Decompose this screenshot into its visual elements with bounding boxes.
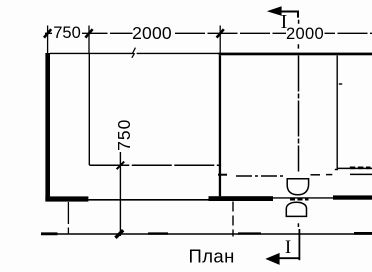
node ground line thick dash mid-left — [148, 232, 168, 234]
node door leaf upper — [287, 179, 308, 195]
wire extension line A — [47, 26, 49, 54]
node tick on partition — [117, 162, 125, 170]
wire section line lower dash — [297, 223, 299, 227]
svg-text:I: I — [285, 237, 291, 258]
node section mark top corner — [273, 12, 298, 18]
wire extension line C — [219, 26, 221, 53]
node threshold thick dashes — [290, 198, 309, 201]
wire section cut line main — [298, 56, 300, 172]
wire bottom thin wall line left room — [88, 199, 209, 201]
node text mask 2000 right — [286, 27, 325, 41]
wall bottom right thick — [333, 195, 372, 199]
wire dashed extension x68 — [67, 202, 69, 234]
node dimension tick B — [85, 29, 92, 37]
node partition foot — [335, 169, 338, 171]
node section arrow bottom — [265, 253, 279, 265]
wire dashed extension x233 — [232, 202, 234, 237]
wire corridor line right upper — [338, 167, 372, 169]
node dimension tick C — [217, 29, 224, 37]
wire vertical dim line 750 — [119, 152, 121, 236]
node text mask 2000 left — [133, 26, 175, 41]
node break mark zigzag — [132, 48, 136, 58]
node ground line thick dash left — [41, 232, 58, 235]
wall bottom-left thick — [45, 196, 88, 201]
node text mask 750 — [52, 26, 82, 39]
node ground line thick dash right — [354, 232, 372, 235]
node dimension tick A — [44, 29, 51, 37]
wire extension line B — [88, 26, 90, 55]
svg-text:2000: 2000 — [132, 23, 172, 43]
wire room inner dash before partition — [326, 174, 332, 176]
svg-text:750: 750 — [53, 24, 81, 42]
wire section line bottom vertical — [298, 229, 300, 260]
wire door threshold thin — [273, 197, 334, 199]
wall right partition thin — [336, 55, 338, 169]
node ground line thick dash mid-right — [238, 232, 261, 234]
svg-text:2000: 2000 — [286, 25, 324, 43]
wire room inner dash right of door — [311, 174, 321, 176]
node door leaf lower — [286, 202, 306, 216]
wire room inner dash-dot line — [236, 175, 285, 177]
wall partition vertical thin — [88, 54, 90, 165]
wire room inner line stub — [218, 174, 227, 176]
wire top cut line right part — [137, 52, 220, 54]
svg-text:I: I — [281, 11, 288, 33]
node tick arrow at ground — [115, 230, 123, 238]
wire top cut line left part — [50, 52, 133, 54]
node section arrow top — [267, 6, 282, 16]
wall left outer thick — [45, 53, 50, 202]
node partition small dash — [339, 83, 342, 85]
wire section arrow line bottom — [272, 257, 300, 259]
wall partition horizontal thin — [89, 164, 219, 166]
wire section line upper dashes — [297, 20, 299, 49]
wall top right thick — [219, 53, 372, 56]
svg-text:750: 750 — [114, 119, 134, 151]
wire ground line — [41, 233, 372, 235]
node corridor line thick dashes — [350, 167, 371, 170]
wall bottom middle thick — [209, 196, 274, 201]
wire corridor line right lower — [350, 173, 372, 175]
svg-text:План: План — [189, 246, 235, 267]
wall middle vertical thick — [219, 55, 221, 196]
wire top dimension line — [45, 32, 372, 34]
